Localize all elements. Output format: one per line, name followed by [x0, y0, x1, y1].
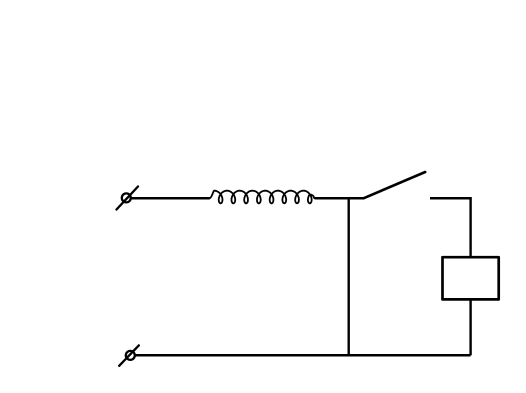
wire (bottom rail, J2 to right branch)	[135, 354, 471, 357]
switch S1 blade (open, SPST)	[364, 172, 426, 198]
load K1 (rectangular component body)	[443, 257, 499, 299]
wire (right vertical, contact down to load)	[469, 197, 471, 257]
wire (vertical branch from node A to bottom rail)	[348, 197, 350, 355]
inductor L1	[209, 191, 315, 204]
terminal J2 (bottom-left input)	[119, 345, 139, 365]
wire (switch fixed contact to right branch)	[430, 197, 472, 200]
terminal J1 (top-left input)	[117, 187, 139, 210]
wire (inductor to switch pivot)	[315, 197, 364, 200]
wire (J1 to inductor)	[131, 197, 210, 200]
wire (load to bottom rail)	[469, 300, 471, 356]
